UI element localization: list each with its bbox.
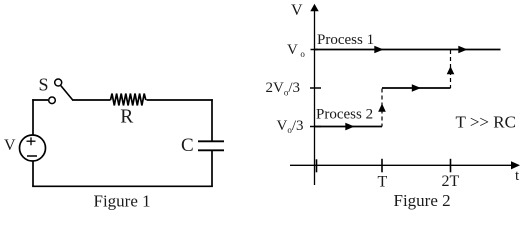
tick 2T [450, 159, 452, 173]
tick Vo/3 level [310, 126, 321, 128]
tick 2Vo/3 level [310, 87, 321, 89]
process 2 line at Vo/3 [315, 126, 383, 128]
dashed riser at T [381, 89, 383, 127]
svg-text:T >> RC: T >> RC [456, 113, 516, 132]
svg-text:Figure 1: Figure 1 [94, 191, 151, 210]
svg-text:Process 2: Process 2 [316, 106, 373, 122]
step line at 2Vo/3 [382, 87, 451, 89]
wire left vertical bottom segment [32, 161, 34, 187]
tick T [381, 159, 383, 173]
svg-text:Figure 2: Figure 2 [394, 191, 451, 210]
y-axis V [314, 7, 316, 185]
dashed riser at T arrowhead [378, 104, 386, 112]
voltage source V [20, 135, 46, 161]
dashed riser at 2T arrowhead [447, 66, 455, 74]
wire bottom horizontal [32, 185, 213, 187]
voltage source plus sign [27, 137, 36, 145]
capacitor C bottom plate [198, 149, 224, 151]
wire top-left horizontal to switch [32, 99, 48, 101]
resistor R zigzag [111, 94, 146, 106]
x-axis arrowhead [511, 161, 520, 169]
switch S blade contact [55, 79, 62, 86]
svg-text:Process 1: Process 1 [317, 32, 374, 48]
svg-text:C: C [181, 135, 194, 156]
svg-text:V: V [4, 137, 16, 154]
wire right vertical bottom segment [211, 150, 213, 187]
process 1 arrowhead b [458, 46, 467, 54]
wire switch to resistor [72, 99, 111, 101]
svg-text:V: V [291, 2, 303, 19]
y-axis arrowhead [310, 4, 318, 11]
wire resistor to top-right corner [147, 99, 213, 101]
tick Vo level [311, 49, 319, 51]
switch S left contact [49, 97, 56, 104]
process 1 line at Vo [315, 49, 501, 51]
svg-text:2T: 2T [442, 173, 460, 190]
process 1 arrowhead a [374, 46, 383, 54]
wire right vertical top segment [211, 99, 213, 141]
dashed riser at 2T [450, 50, 452, 88]
svg-text:Vo/3: Vo/3 [277, 118, 304, 135]
capacitor C top plate [198, 140, 224, 142]
switch S blade [61, 86, 73, 100]
voltage source minus sign [27, 155, 37, 157]
svg-text:2Vo/3: 2Vo/3 [266, 80, 301, 97]
svg-text:R: R [120, 106, 133, 127]
process 2 arrowhead [345, 123, 354, 131]
svg-text:S: S [39, 75, 49, 95]
svg-text:t: t [515, 168, 520, 184]
wire left vertical top segment [32, 99, 34, 135]
svg-text:T: T [378, 173, 388, 190]
tick origin [316, 159, 318, 172]
x-axis t [290, 164, 515, 166]
step arrowhead [412, 84, 421, 92]
svg-text:Vo: Vo [287, 42, 305, 59]
